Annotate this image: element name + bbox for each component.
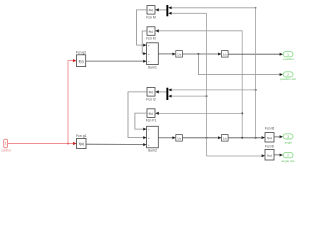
wire Fcn F1 to Sum2 input 1 (135, 113, 147, 131)
svg-text:f(u): f(u) (149, 29, 154, 33)
wire theta to mux2 input 1 (171, 89, 255, 91)
svg-text:2: 2 (287, 154, 289, 158)
node control branch junction (67, 143, 69, 145)
svg-text:+: + (148, 127, 150, 131)
wire Fcn I2 to Sum2 input 2 (128, 92, 147, 139)
node theta to Fcn F1 junction (241, 112, 243, 114)
wire theta-dot to mux2 input 2 (171, 95, 206, 97)
wire Fcn Kl to Sum1 input 2 (142, 31, 147, 55)
svg-text:Fcn M: Fcn M (146, 15, 156, 19)
wire theta feedback to Fcn F1 (155, 112, 242, 115)
outport angle (283, 134, 293, 145)
wire Fcn t6 to outport angle (274, 135, 283, 138)
svg-text:+: + (148, 52, 150, 56)
svg-text:Fcn F1: Fcn F1 (146, 119, 157, 123)
svg-text:f(u): f(u) (79, 142, 84, 146)
node theta branch 2 (255, 137, 257, 139)
svg-text:f(u): f(u) (79, 59, 84, 63)
svg-text:position dot: position dot (280, 77, 296, 81)
svg-text:Fcn g2: Fcn g2 (76, 50, 86, 54)
Fcn F1 (146, 109, 157, 123)
svg-text:1/s: 1/s (177, 52, 182, 56)
wire mux2 to Fcn I2 (155, 90, 166, 93)
Sum2 (147, 126, 159, 152)
node theta corner (255, 7, 257, 9)
Fcn g1 (76, 134, 86, 148)
wire Sum1 to Integrator A1 (158, 53, 176, 56)
svg-text:Fcn Kl: Fcn Kl (146, 37, 156, 41)
wire theta to mux1 input 1 (171, 7, 255, 9)
wire theta feedback to Fcn Kl (155, 29, 242, 138)
svg-text:1/s: 1/s (177, 136, 182, 140)
svg-text:Fcn t6: Fcn t6 (265, 127, 275, 131)
Sum1 (147, 43, 159, 70)
wire mux1 to Fcn M (155, 8, 166, 11)
svg-text:Fcn I2: Fcn I2 (146, 97, 156, 101)
inport control (1, 139, 11, 152)
outport position dot (280, 72, 296, 81)
wire Integrator A2 to outport position (228, 53, 283, 56)
node theta mux2 junction (255, 89, 257, 91)
integrator B1 (176, 135, 183, 142)
integrator A2 (222, 51, 229, 58)
Fcn g2 (76, 50, 86, 66)
Fcn t6 (265, 127, 275, 142)
wire theta-dot to Fcn th (207, 154, 266, 157)
svg-text:f(u): f(u) (267, 153, 272, 157)
wire Integrator B2 to Fcn t6 (228, 136, 265, 139)
wire theta-dot feedback vertical (206, 13, 208, 156)
svg-text:+: + (148, 60, 150, 64)
mux2 (166, 88, 171, 100)
svg-text:+: + (148, 43, 150, 47)
svg-text:control: control (1, 148, 11, 152)
svg-text:Sum2: Sum2 (148, 149, 157, 153)
Fcn I2 (146, 88, 156, 102)
wire Fcn M to Sum1 input 1 (137, 10, 147, 47)
svg-text:Fcn g1: Fcn g1 (76, 134, 86, 138)
svg-text:angle dot: angle dot (282, 159, 295, 163)
wire Sum2 to Integrator B1 (158, 136, 176, 139)
svg-text:f(u): f(u) (149, 8, 154, 12)
wire control to Fcn g1 (red) (8, 142, 77, 145)
svg-text:angle: angle (285, 140, 293, 144)
node theta-dot tap (206, 137, 208, 139)
node theta-dot mux2 junction (206, 95, 208, 97)
mux1 (166, 5, 171, 16)
svg-text:Sum1: Sum1 (148, 65, 157, 69)
Fcn Kl (146, 27, 156, 41)
svg-text:position: position (283, 57, 294, 61)
wire theta-dot to mux1 input 2 (171, 12, 206, 14)
wire xdot to outport position dot (198, 54, 283, 76)
node theta branch 1 (241, 137, 243, 139)
svg-text:f(u): f(u) (149, 90, 154, 94)
wire Integrator B1 to Integrator B2 (182, 136, 221, 139)
wire theta feedback vertical (255, 8, 257, 138)
outport angle dot (282, 152, 295, 163)
outport position (283, 52, 294, 61)
integrator A1 (176, 51, 183, 58)
svg-text:1/s: 1/s (223, 52, 228, 56)
svg-text:1: 1 (5, 142, 7, 146)
integrator B2 (222, 135, 229, 142)
svg-text:1/s: 1/s (223, 136, 228, 140)
wire Integrator A1 to Integrator A2 (182, 53, 221, 56)
svg-text:f(u): f(u) (149, 112, 154, 116)
wire control branch up to Fcn g2 (red) (68, 59, 77, 144)
wire Fcn th to outport angle dot (274, 154, 283, 157)
wire Fcn g2 to Sum1 input 3 (86, 60, 147, 63)
node xdot tap (197, 53, 199, 55)
wire Fcn g1 to Sum2 input 3 (86, 143, 147, 146)
Fcn th (265, 145, 275, 161)
svg-text:3: 3 (287, 135, 289, 139)
svg-text:f(u): f(u) (267, 136, 272, 140)
svg-text:+: + (148, 136, 150, 140)
svg-text:Fcn th: Fcn th (265, 145, 275, 149)
svg-text:+: + (148, 143, 150, 147)
Fcn M (146, 6, 156, 20)
